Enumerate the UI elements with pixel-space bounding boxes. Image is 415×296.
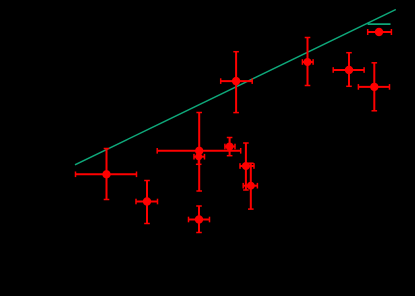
data point A [76,149,137,200]
data point I [302,38,313,86]
data point C [189,206,210,233]
data point K (top right, no vertical bar) [368,28,392,36]
data point E [225,138,235,156]
data point H [221,52,253,113]
data point J [333,53,364,87]
data point D1 (wide bars) [157,113,241,192]
data point B [136,181,158,224]
teal horizontal segment (upper-limit marker near top-right point) [368,23,391,25]
data point D2 (small, overlapping below D1) [194,151,205,164]
data point L [358,63,389,111]
data point G [243,163,257,209]
fit line (teal diagonal) [75,10,396,165]
data point F [240,143,254,190]
